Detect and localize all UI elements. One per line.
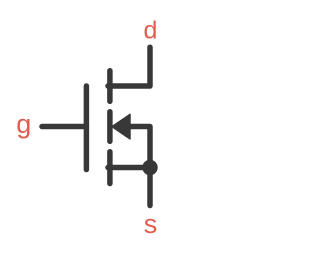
wire source: stub to junction <box>108 165 150 171</box>
svg-text:g: g <box>16 109 31 139</box>
wire drain: stub to top terminal d <box>108 47 150 86</box>
wire source terminal down to s <box>147 168 153 206</box>
junction dot at source node <box>142 160 157 175</box>
svg-text:d: d <box>144 17 158 45</box>
transistor Q1 gate plate <box>84 86 90 170</box>
transistor Q1 channel top (drain) stub <box>107 71 113 102</box>
transistor Q1 gate lead wire <box>42 124 86 130</box>
transistor Q1 channel middle (body) stub <box>107 112 113 142</box>
transistor Q1 body arrow (N-channel) <box>112 114 130 138</box>
transistor Q1 channel bottom (source) stub <box>107 152 113 184</box>
wire body arrow rail to source junction <box>129 127 150 168</box>
svg-text:s: s <box>144 209 158 239</box>
